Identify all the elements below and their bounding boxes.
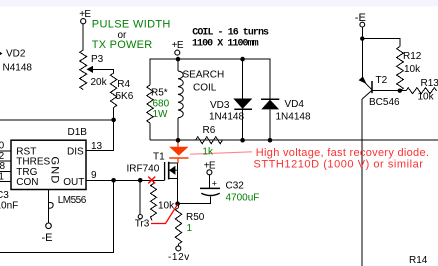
coil note text (192, 27, 269, 49)
window edge strip (0, 0, 438, 7)
diode VD3 (233, 99, 252, 110)
svg-text:R6: R6 (203, 125, 216, 136)
diode VD2 (clipped at left edge) (0, 49, 2, 59)
IC U1 LM556 box D1B (11, 140, 86, 189)
wire: R4 bottom lead (113, 108, 115, 120)
svg-text:High voltage, fast recovery di: High voltage, fast recovery diode. (256, 147, 429, 159)
resistor R50 zigzag (175, 208, 181, 245)
svg-text:-12v: -12v (168, 252, 190, 263)
svg-text:D1B: D1B (68, 127, 88, 138)
svg-text:10k: 10k (404, 64, 421, 75)
node: T1 source / C32 / R50 junction (175, 201, 180, 206)
IC pin labels (16, 146, 84, 188)
node: T2 base / R12 / R13 junction (398, 89, 402, 93)
node: VD3 top junction (240, 57, 245, 62)
node: VD3 bottom junction (240, 138, 245, 143)
svg-text:13: 13 (91, 141, 103, 152)
squiggle mark on GND lead (48, 203, 53, 209)
svg-text:9: 9 (91, 170, 97, 181)
svg-text:1N4148: 1N4148 (209, 112, 244, 123)
wire: coil top lead (177, 59, 179, 71)
svg-text:T2: T2 (376, 75, 388, 86)
terminal Tr3 (138, 215, 142, 219)
svg-text:P3: P3 (91, 54, 104, 65)
wire: left rail to R4/DIS junction (0, 119, 114, 121)
terminal +E above P3 (81, 19, 86, 24)
wire: T2 collector diagonal (362, 80, 372, 90)
resistor R13 zigzag (406, 88, 437, 94)
node: -E / R12 / T2 collector junction (360, 36, 364, 40)
wire: T1 drain corner (169, 163, 178, 179)
diode VD4 (261, 99, 279, 109)
svg-text:10nF: 10nF (0, 201, 18, 212)
node: +E / coil top junction (176, 57, 181, 62)
wire: OUT pin to gate (86, 179, 164, 181)
svg-text:R14: R14 (409, 255, 428, 266)
node: VD4 bottom junction (268, 138, 273, 143)
svg-text:SEARCH: SEARCH (183, 70, 225, 81)
svg-text:R13: R13 (421, 78, 438, 89)
svg-text:COIL: COIL (193, 83, 217, 94)
svg-text:C32: C32 (226, 181, 245, 192)
wire: Tr3 branch (139, 180, 141, 214)
svg-text:+E: +E (204, 161, 216, 172)
svg-text:20k: 20k (91, 77, 108, 88)
svg-text:R50: R50 (186, 212, 205, 223)
svg-text:-E: -E (355, 12, 366, 24)
wire: -E top right lead (361, 27, 363, 38)
wire: C32 +E lead (208, 175, 210, 188)
green label PULSE WIDTH / TX POWER (92, 19, 171, 52)
svg-text:11: 11 (0, 172, 4, 183)
svg-text:1k: 1k (202, 147, 214, 158)
wire: OUT branch down to bottom-left rail (0, 180, 114, 252)
wire: P3 top lead from +E (82, 24, 84, 50)
wire: VD3 branch bottom (242, 109, 244, 140)
svg-text:R12: R12 (403, 51, 422, 62)
svg-text:4700uF: 4700uF (226, 193, 260, 204)
wire: -E junction to R12 (362, 39, 400, 47)
wire: IC GND lead (47, 190, 49, 224)
wire: CON pin 11 stub (0, 180, 11, 182)
wire: VD4 branch top (269, 70, 271, 99)
svg-text:IRF740: IRF740 (127, 164, 160, 175)
svg-text:R4: R4 (117, 79, 130, 90)
potentiometer P3 zigzag (80, 50, 87, 90)
terminal -E top right (360, 22, 365, 27)
potentiometer P3 wiper arrow (87, 66, 94, 73)
red annotation leader line (190, 152, 252, 154)
red X mark on gate wire (148, 177, 155, 184)
wire: top rail of search coil section (150, 59, 270, 85)
wire: R12 bottom lead (399, 90, 401, 92)
wire: VD3 branch top (242, 59, 244, 98)
red modification wire (10k to source) (151, 204, 178, 223)
terminal -E below IC (46, 223, 52, 229)
svg-text:VD2: VD2 (6, 49, 26, 60)
resistor 10k (gate) zigzag (151, 184, 157, 221)
wire: P3 wiper to R4 (93, 69, 114, 73)
svg-text:10: 10 (0, 140, 5, 151)
IC DIS pin stub (86, 149, 93, 151)
svg-text:-E: -E (42, 232, 53, 244)
node: R4 / DIS junction (111, 118, 116, 123)
svg-text:LM556: LM556 (58, 195, 87, 206)
node: OUT wire branch to Tr3 (138, 178, 143, 183)
svg-text:T1: T1 (153, 152, 165, 163)
svg-text:1W: 1W (153, 109, 169, 120)
svg-text:+E: +E (172, 40, 184, 51)
wire: R50 bottom lead (178, 244, 180, 246)
IC pin numbers left (0, 140, 6, 182)
svg-text:10k: 10k (418, 92, 435, 103)
svg-text:DIS: DIS (67, 146, 84, 157)
terminal +E above C32 (207, 170, 212, 175)
terminal +E above coil (175, 50, 180, 55)
wire: R50 top lead (178, 204, 180, 208)
resistor R6 zigzag (196, 137, 223, 144)
terminal circles (46, 19, 365, 251)
svg-text:COIL - 16 turns: COIL - 16 turns (192, 27, 269, 38)
resistor R12 zigzag (397, 47, 404, 91)
svg-text:or: or (118, 30, 128, 41)
red annotation text (254, 147, 430, 171)
svg-text:5K6: 5K6 (116, 91, 134, 102)
svg-text:VD4: VD4 (285, 99, 305, 110)
node: OUT wire branch to bottom rail (111, 178, 116, 183)
svg-text:BC546: BC546 (369, 97, 400, 108)
wire: TRG pin 8 stub (0, 170, 11, 172)
wire: coil bottom lead (177, 118, 179, 140)
svg-text:VD3: VD3 (210, 100, 230, 111)
svg-text:Tr3: Tr3 (135, 218, 150, 229)
svg-text:+E: +E (79, 9, 91, 20)
terminal -12v (176, 246, 181, 251)
svg-text:N4148: N4148 (3, 63, 33, 74)
svg-text:1: 1 (187, 223, 193, 234)
transistor T2 BC546 (359, 76, 372, 93)
svg-text:1100 X 1100mm: 1100 X 1100mm (192, 39, 259, 50)
wire: T2 base lead (372, 90, 400, 92)
wire: T2 emitter diagonal and long vertical (362, 90, 372, 99)
wire: bottom rail (main) (150, 139, 438, 141)
resistor R5 zigzag (147, 85, 153, 123)
svg-text:STTH1210D (1000 V) or similar: STTH1210D (1000 V) or similar (254, 159, 424, 171)
wire: R13 lead (400, 90, 407, 92)
svg-text:1N4148: 1N4148 (276, 112, 311, 123)
svg-text:CON: CON (16, 177, 38, 188)
wire: R5 bottom lead (149, 123, 151, 140)
svg-text:10k: 10k (158, 201, 175, 212)
wire: RST pin 10 stub (0, 150, 11, 152)
transistor T1 IRF740 mosfet (165, 162, 177, 181)
wire: T2 collector vertical (361, 39, 363, 80)
capacitor C32 plates (200, 179, 220, 196)
svg-text:GND: GND (49, 157, 61, 185)
svg-text:PULSE WIDTH: PULSE WIDTH (92, 19, 171, 31)
svg-text:R5*: R5* (151, 88, 168, 99)
svg-text:OUT: OUT (63, 177, 84, 188)
wire: source junction to C32 bottom (178, 196, 211, 203)
node: coil bottom / HV diode junction (176, 138, 181, 143)
resistor R4 zigzag (110, 73, 116, 108)
wire: VD4 branch bottom (269, 109, 271, 140)
wire: long vertical below T2 (361, 99, 363, 266)
wire: T1 source down to junction (177, 179, 179, 204)
svg-text:+: + (212, 179, 217, 189)
wire: DIS pin to junction (86, 120, 114, 150)
high voltage diode (red) (169, 141, 188, 163)
wire: 10k top lead (153, 180, 155, 183)
search coil inductor squiggle (178, 71, 183, 118)
wire: THRES pin 12 stub (0, 160, 11, 162)
